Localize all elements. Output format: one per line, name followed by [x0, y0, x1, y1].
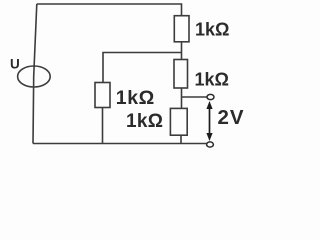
resistor R1 — [174, 16, 189, 42]
wire mid branch lower — [102, 108, 104, 144]
svg-text:1kΩ: 1kΩ — [195, 20, 229, 40]
resistor R2 — [174, 60, 188, 89]
svg-text:1kΩ: 1kΩ — [116, 87, 155, 109]
resistor R4 — [170, 108, 187, 135]
wire to top terminal — [182, 96, 208, 98]
wire right below R4 — [180, 135, 182, 143]
terminal top — [207, 94, 214, 99]
wire right between R1 R2 — [181, 42, 183, 60]
wire bottom — [33, 143, 207, 145]
resistor R3 middle branch — [95, 83, 110, 108]
wire mid branch — [103, 53, 182, 83]
wire top — [37, 4, 182, 16]
arrow 2V double-headed — [206, 101, 212, 141]
terminal bottom — [207, 142, 214, 147]
voltage source U1 — [18, 66, 51, 87]
svg-text:U: U — [10, 57, 20, 72]
wire left — [33, 4, 37, 144]
wire right between R2 R4 — [181, 88, 183, 108]
svg-text:2V: 2V — [218, 106, 245, 129]
svg-text:1kΩ: 1kΩ — [195, 70, 229, 90]
svg-text:1kΩ: 1kΩ — [126, 111, 163, 132]
